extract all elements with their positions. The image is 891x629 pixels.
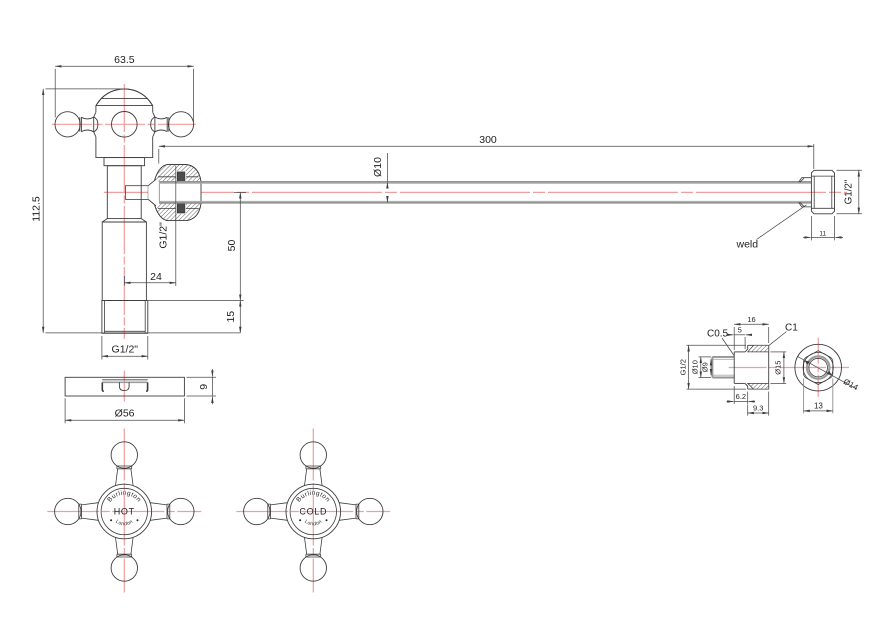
valve tail thread G1/2	[102, 301, 148, 334]
dimension 16	[734, 315, 769, 350]
svg-text:15: 15	[225, 311, 237, 323]
section front view pipe ring	[807, 356, 829, 378]
section thread hatch top	[748, 345, 769, 352]
shoulder transition	[102, 219, 146, 222]
dimension diameter 9 section	[701, 359, 711, 375]
hot handle centerline horizontal	[47, 511, 201, 513]
nut seal window top	[176, 171, 186, 182]
dimension G1/2 right fitting	[837, 170, 863, 214]
branch outlet	[126, 186, 149, 200]
cover plate clip left hook	[102, 383, 104, 392]
svg-text:Ø10: Ø10	[372, 157, 384, 177]
svg-text:Ø9: Ø9	[701, 362, 710, 372]
valve lower body	[102, 222, 146, 301]
branch cone into nut	[148, 179, 159, 206]
svg-text:5: 5	[738, 325, 742, 334]
cold handle Burlington text	[297, 495, 331, 518]
bonnet flange	[104, 158, 145, 166]
svg-text:16: 16	[747, 315, 755, 324]
svg-text:C0.5: C0.5	[707, 329, 729, 340]
weld bead bottom	[799, 202, 812, 207]
compression nut cross-section	[148, 165, 201, 221]
svg-text:63.5: 63.5	[114, 54, 135, 66]
nut seal window bottom	[176, 203, 186, 214]
handle right ball	[168, 112, 193, 137]
weld label and leader	[736, 205, 807, 251]
handle front ball	[112, 112, 138, 138]
svg-text:6.2: 6.2	[736, 392, 746, 401]
dimension G1/2 bottom tail	[102, 336, 148, 360]
centerline vertical valve	[123, 84, 125, 339]
label C1 leader	[769, 323, 799, 346]
cover plate centerline	[123, 371, 125, 402]
dimension 9 plate thickness	[187, 369, 217, 404]
svg-text:HOT: HOT	[114, 506, 135, 516]
handle right neck	[151, 112, 169, 137]
centerline pipe axis	[104, 191, 847, 193]
svg-text:COLD: COLD	[299, 506, 327, 516]
dimension G1/2 section	[678, 345, 746, 389]
svg-text:50: 50	[226, 240, 238, 252]
dimension 6.2	[727, 386, 756, 404]
dimension diameter 15 section	[771, 352, 787, 384]
svg-text:weld: weld	[736, 239, 759, 251]
hot handle cross	[55, 442, 194, 581]
pipe	[159, 182, 811, 203]
svg-text:G1/2": G1/2"	[158, 222, 170, 249]
section fitting body profile	[734, 345, 769, 389]
nut seal top	[177, 172, 185, 182]
hot handle centerline vertical	[123, 429, 125, 593]
section detail centerline horizontal	[729, 367, 849, 369]
dimension 50	[148, 192, 246, 300]
svg-text:13: 13	[814, 401, 823, 410]
dimension 11 fitting depth	[803, 216, 843, 240]
nut seal bottom	[177, 203, 185, 213]
dimension 300	[159, 134, 814, 169]
cover plate side view	[65, 377, 184, 396]
handle left ball	[55, 112, 80, 137]
dimension 112.5	[31, 89, 241, 333]
cold handle dots	[299, 519, 301, 521]
dimension 13	[804, 379, 833, 414]
cover plate clip U notch	[119, 382, 129, 390]
section front view hex	[804, 351, 833, 385]
cold handle London text	[302, 519, 325, 525]
svg-text:11: 11	[819, 231, 826, 238]
nut internal edges	[158, 177, 199, 209]
dimension 5	[727, 325, 752, 349]
svg-text:C1: C1	[785, 323, 798, 334]
dimension diameter 10 pipe	[372, 153, 387, 202]
cold handle cross	[244, 442, 383, 581]
cover plate clip right hook	[146, 383, 148, 392]
svg-text:G1/2": G1/2"	[843, 179, 854, 204]
dimension 63.5	[55, 54, 193, 122]
section front view bore circle	[809, 358, 828, 377]
cold handle centerline vertical	[312, 429, 314, 593]
handle left neck	[80, 112, 98, 137]
centerline horizontal handle side view	[52, 123, 196, 125]
section front view thread circle	[803, 353, 833, 383]
dimension diameter 56	[65, 398, 184, 423]
svg-text:112.5: 112.5	[31, 196, 43, 222]
svg-text:Ø15: Ø15	[773, 361, 782, 375]
dimension 15	[225, 301, 240, 333]
dimension diameter 14 diagonal	[797, 356, 860, 392]
valve stem section	[107, 166, 141, 219]
valve dome	[96, 89, 153, 106]
svg-text:9.3: 9.3	[753, 404, 763, 413]
label C0.5 leader	[707, 329, 734, 356]
hot handle dots	[110, 519, 112, 521]
section front view outer circle	[795, 344, 842, 391]
section pipe stub	[712, 357, 734, 378]
svg-text:G1/2: G1/2	[678, 359, 687, 375]
hot handle Burlington text	[108, 495, 142, 518]
hot handle London text	[113, 519, 136, 525]
dimension diameter 10 section	[690, 357, 711, 378]
weld bead top	[799, 178, 812, 183]
valve body	[96, 106, 153, 158]
dimension 24	[124, 166, 175, 287]
wall fitting block	[811, 170, 834, 214]
svg-text:Ø10: Ø10	[690, 360, 699, 374]
svg-text:Ø56: Ø56	[115, 408, 135, 420]
svg-text:G1/2": G1/2"	[112, 344, 139, 356]
section thread hatch bottom	[748, 383, 769, 389]
dimension 9.3	[748, 392, 769, 416]
cold handle centerline horizontal	[236, 511, 390, 513]
section front view centerlines	[817, 338, 819, 397]
svg-text:24: 24	[150, 271, 162, 283]
svg-text:300: 300	[479, 134, 497, 146]
svg-text:9: 9	[198, 384, 210, 390]
